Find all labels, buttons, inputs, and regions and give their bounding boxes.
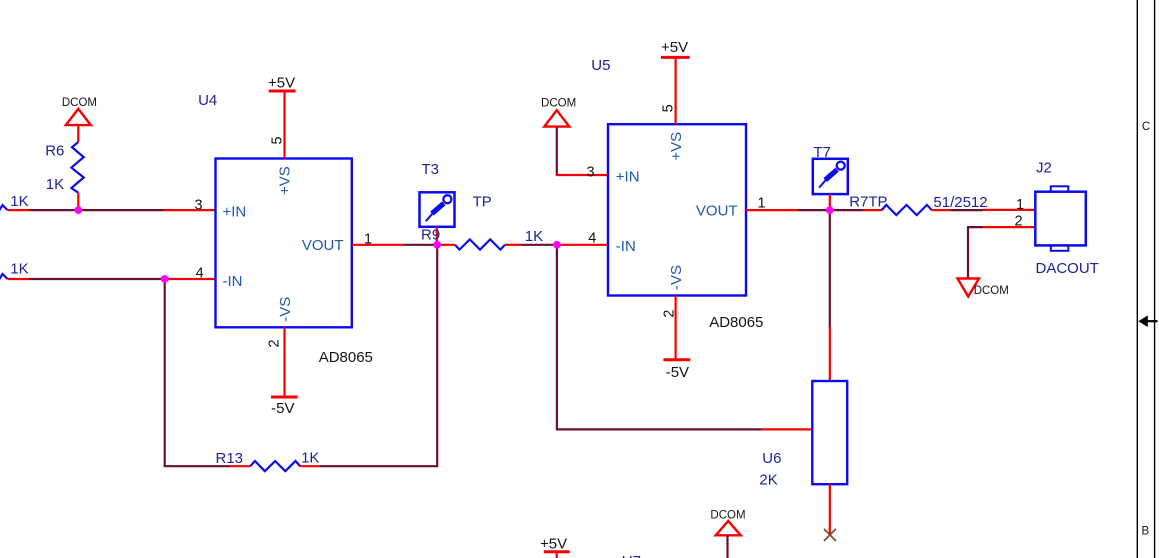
svg-text:-VS: -VS bbox=[668, 265, 685, 290]
svg-text:1K: 1K bbox=[301, 449, 319, 466]
svg-text:+5V: +5V bbox=[540, 536, 567, 553]
svg-text:+VS: +VS bbox=[277, 166, 294, 195]
svg-text:1K: 1K bbox=[525, 228, 543, 245]
svg-text:1: 1 bbox=[364, 232, 372, 248]
ground DCOM (bottom, for U7) bbox=[710, 510, 745, 558]
wire: U5 VOUT to junction bbox=[798, 209, 830, 211]
svg-text:2K: 2K bbox=[759, 471, 777, 488]
pin stub: U6 pin 2 (bottom) bbox=[829, 484, 831, 534]
pin 4 stub of U5 bbox=[557, 244, 608, 246]
power +5V (bottom, for U7) bbox=[540, 536, 570, 558]
svg-text:DCOM: DCOM bbox=[974, 285, 1009, 297]
svg-text:2: 2 bbox=[1015, 213, 1023, 229]
svg-text:-VS: -VS bbox=[277, 297, 294, 322]
pin 4 stub of U4 bbox=[165, 278, 216, 280]
svg-text:5: 5 bbox=[661, 104, 677, 112]
wire: VOUT node down toward U6 bbox=[829, 210, 831, 327]
svg-text:5: 5 bbox=[270, 136, 286, 144]
svg-text:+IN: +IN bbox=[616, 168, 640, 185]
svg-text:VOUT: VOUT bbox=[302, 237, 344, 254]
svg-text:DACOUT: DACOUT bbox=[1036, 260, 1099, 277]
pin 3 stub of U5 bbox=[556, 174, 608, 176]
svg-text:U7: U7 bbox=[622, 553, 641, 558]
svg-text:R13: R13 bbox=[216, 450, 244, 467]
svg-text:1K: 1K bbox=[10, 261, 28, 278]
off-page arrow marker bbox=[1138, 315, 1157, 327]
svg-text:AD8065: AD8065 bbox=[709, 314, 763, 331]
connector J2 DACOUT bbox=[1035, 159, 1099, 277]
svg-text:C: C bbox=[1142, 121, 1150, 133]
svg-text:R6: R6 bbox=[45, 142, 64, 159]
wire: feedback from VOUT node down to R13 bbox=[320, 245, 437, 466]
svg-text:U4: U4 bbox=[198, 92, 217, 109]
svg-text:3: 3 bbox=[587, 164, 595, 180]
svg-text:T3: T3 bbox=[422, 161, 440, 178]
test point T7 bbox=[813, 144, 848, 210]
wire: R13 left to -IN junction bbox=[165, 279, 230, 466]
pin 5 stub of U5 (wire to +5V) bbox=[674, 57, 676, 124]
svg-text:B: B bbox=[1141, 526, 1149, 538]
svg-text:1: 1 bbox=[1016, 197, 1024, 213]
no-connect X at U6 pin 2 bbox=[824, 529, 836, 541]
svg-text:TP: TP bbox=[473, 193, 492, 210]
ground DCOM (at U5 +IN) bbox=[541, 98, 576, 127]
wire: DCOM to U5 pin 3 bbox=[556, 127, 559, 175]
pin 1 stub of J2 bbox=[983, 209, 1035, 211]
pin 3 stub of U4 bbox=[164, 209, 216, 211]
svg-text:2: 2 bbox=[267, 339, 283, 347]
pin stub: U6 wiper bbox=[762, 428, 813, 430]
svg-text:1K: 1K bbox=[46, 176, 64, 193]
resistor R6 1K (vertical) bbox=[45, 125, 83, 210]
svg-text:-IN: -IN bbox=[616, 238, 636, 255]
wire: VOUT node to R7TP bbox=[830, 209, 863, 211]
resistor (off-sheet partial) on +IN net of U4 bbox=[0, 193, 29, 214]
svg-text:-5V: -5V bbox=[271, 400, 294, 417]
pin 2 stub of U5 (wire to -5V) bbox=[674, 296, 676, 360]
resistor R13 1K (feedback) bbox=[216, 449, 321, 471]
power -5V (U4) bbox=[271, 397, 298, 417]
svg-text:1: 1 bbox=[758, 196, 766, 212]
svg-text:DCOM: DCOM bbox=[541, 98, 576, 110]
svg-text:AD8065: AD8065 bbox=[319, 349, 373, 366]
power +5V (U4) bbox=[268, 74, 296, 91]
ground DCOM (at J2 pin 2, pointing down) bbox=[958, 279, 1009, 298]
wire: U4 VOUT to junction bbox=[404, 244, 437, 246]
svg-text:+VS: +VS bbox=[668, 132, 685, 161]
svg-text:51/2512: 51/2512 bbox=[933, 194, 987, 211]
potentiometer U6 2K bbox=[759, 381, 847, 488]
svg-text:1K: 1K bbox=[10, 193, 28, 210]
junction at U5 VOUT node bbox=[826, 206, 834, 214]
svg-text:3: 3 bbox=[195, 197, 203, 213]
ground DCOM (top left) bbox=[62, 97, 97, 125]
junction at U5 -IN node bbox=[553, 241, 561, 249]
wire: net to U4 pin 3 (+IN) bbox=[29, 209, 164, 211]
wire: net to U4 pin 4 (-IN) bbox=[29, 278, 165, 280]
resistor (off-sheet partial) on -IN net of U4 bbox=[0, 261, 29, 283]
pin 2 stub of J2 bbox=[983, 226, 1035, 228]
sheet border line (outer) bbox=[1154, 0, 1156, 558]
test point T3 bbox=[420, 161, 455, 245]
svg-text:2: 2 bbox=[662, 310, 678, 318]
svg-text:-IN: -IN bbox=[223, 273, 243, 290]
svg-text:U5: U5 bbox=[591, 57, 610, 74]
svg-text:VOUT: VOUT bbox=[696, 203, 738, 220]
pin 1 stub of U5 (VOUT) bbox=[746, 209, 798, 211]
wire: R9 to U5 -IN node bbox=[521, 244, 553, 246]
svg-text:-5V: -5V bbox=[666, 364, 689, 381]
svg-text:+IN: +IN bbox=[223, 203, 247, 220]
power -5V (U5) bbox=[663, 360, 690, 381]
power +5V (U5) bbox=[661, 39, 690, 57]
svg-text:U6: U6 bbox=[762, 450, 781, 467]
wire: J2 pin 2 to DCOM bbox=[968, 227, 983, 278]
junction at U4 VOUT node bbox=[433, 241, 441, 249]
pin stub: U6 pin 1 (top) bbox=[829, 327, 831, 381]
svg-text:4: 4 bbox=[196, 266, 204, 282]
sheet border line (inner) bbox=[1136, 0, 1138, 558]
svg-text:4: 4 bbox=[588, 231, 596, 247]
svg-text:+5V: +5V bbox=[268, 74, 295, 91]
svg-text:+5V: +5V bbox=[661, 39, 688, 56]
pin 1 stub of U4 (VOUT) bbox=[352, 244, 404, 246]
op-amp U5 AD8065 bbox=[591, 57, 763, 331]
op-amp U4 AD8065 bbox=[198, 92, 373, 366]
svg-text:DCOM: DCOM bbox=[62, 97, 97, 109]
pin 5 stub of U4 (wire to +5V) bbox=[283, 91, 285, 159]
svg-text:R7TP: R7TP bbox=[849, 193, 887, 210]
resistor R9 1K bbox=[421, 227, 543, 250]
wire: U5 -IN node down and right to U6 wiper bbox=[557, 245, 762, 430]
pin 2 stub of U4 (wire to -5V) bbox=[283, 327, 285, 397]
junction at R6 / +IN net bbox=[74, 206, 82, 214]
svg-text:J2: J2 bbox=[1036, 159, 1052, 176]
junction at -IN / feedback node bbox=[161, 275, 169, 283]
wire: R7TP to J2 pin 1 bbox=[950, 209, 983, 211]
resistor R7TP 51/2512 bbox=[849, 193, 987, 215]
